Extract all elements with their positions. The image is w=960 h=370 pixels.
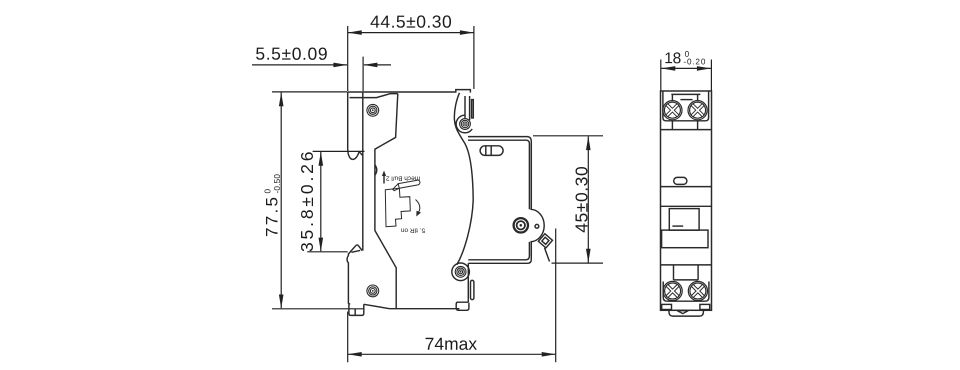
front view: top terminal bridge (671, 93, 700, 95)
front view: lower block top line (661, 264, 712, 266)
svg-text:18: 18 (664, 50, 681, 67)
instruction: clip shape (385, 188, 410, 226)
side view: front big arc (454, 93, 473, 265)
front view: face line (661, 186, 712, 188)
svg-text:77.5: 77.5 (263, 197, 282, 237)
side view: right lower edge to bottom (467, 263, 469, 302)
front view: toggle handle (669, 209, 699, 231)
front view: top ticks lower (671, 121, 673, 130)
side view: top ledge (468, 137, 531, 210)
side view: screw top-right with boss (456, 115, 472, 133)
side view: tip tail line (545, 248, 550, 262)
side view: top right flag (472, 100, 474, 118)
instruction: up arrow (382, 171, 386, 184)
front view: rocker plate (662, 230, 708, 248)
front view: screw top-right (688, 101, 707, 120)
side view: toggle hub arc (530, 209, 544, 241)
front view: terminal bottom line (661, 129, 712, 131)
5.5 arrows (333, 63, 347, 68)
74 arrows (348, 352, 362, 357)
side view: left edge lower (347, 254, 348, 304)
front view: toggle dash (672, 225, 683, 227)
instruction: rotate arrow (416, 200, 422, 217)
front view: screw bottom-right (688, 281, 707, 300)
44.5 arrows (348, 30, 362, 35)
dim 35.8 lines (313, 150, 365, 152)
front view: screw bottom-left (663, 281, 682, 300)
77.5 arrows (279, 92, 284, 106)
svg-text:-0.50: -0.50 (273, 174, 282, 194)
front view: lower cage ticks (673, 265, 675, 280)
18 arrows (661, 66, 675, 71)
side view: bottom right tab (456, 302, 469, 310)
dim 18 lines (660, 60, 662, 91)
45 arrows (586, 136, 591, 150)
side view: inner channel line (362, 92, 364, 251)
dimension texts (255, 12, 705, 354)
svg-text:74max: 74max (425, 334, 478, 354)
side view: panel nub (375, 165, 377, 175)
arrowheads (279, 30, 711, 356)
side view: inner panel outline (375, 94, 398, 309)
front view: top terminal ticks upper (671, 94, 673, 101)
front view: lower cage line (674, 279, 699, 281)
front view: right foot (700, 304, 710, 309)
front view: screw top-left (663, 101, 682, 120)
side view: top right verticals (464, 96, 466, 118)
instruction: screwdriver (393, 180, 420, 191)
svg-text:-0.20: -0.20 (683, 57, 705, 66)
front view: top tangent line (680, 99, 692, 101)
side view: lower tooth (348, 245, 362, 254)
side view: bottom ledge inner (468, 242, 529, 260)
front view: top recess outline (663, 91, 709, 121)
front view: outer rect (661, 91, 712, 310)
front view: lower recess outline (663, 282, 709, 302)
front view: left foot (662, 304, 672, 309)
dim 77.5 lines (272, 91, 347, 93)
dim 5.5 lines (362, 57, 364, 91)
svg-text:45±0.30: 45±0.30 (572, 166, 592, 233)
dim 74 lines (347, 312, 349, 363)
side view: DIN hook (349, 304, 364, 316)
svg-text:35.8±0.26: 35.8±0.26 (297, 152, 317, 253)
svg-text:0: 0 (263, 189, 272, 194)
side view: toggle pivot (514, 218, 528, 232)
side view: toggle tip diamond (538, 234, 552, 248)
svg-text:44.5±0.30: 44.5±0.30 (370, 12, 452, 32)
side view: face below hub (468, 242, 531, 263)
side view: right lower latch (471, 280, 474, 299)
svg-text:5. tlR on: 5. tlR on (401, 227, 426, 234)
front view: bottom tab (669, 310, 703, 316)
front view: tab notch triangle (677, 311, 688, 314)
dim 45 lines (533, 135, 603, 137)
side view: hook inner line (354, 309, 356, 315)
side view: top edge (348, 90, 471, 93)
front view: toggle top line (661, 205, 712, 207)
label 77.5 0/-0.50 (263, 174, 282, 237)
svg-text:5.5±0.09: 5.5±0.09 (255, 44, 327, 64)
35.8 arrows (319, 152, 324, 166)
dim 44.5 lines (347, 26, 349, 91)
side view: inner top line (350, 94, 398, 98)
side view: oval indicator (480, 146, 503, 156)
side view: detent dot (535, 224, 539, 228)
side view: bottom edge (364, 304, 460, 308)
side view: screw bottom-left (367, 285, 379, 297)
front view: oval slot (674, 177, 687, 184)
side view: screw top-left (367, 104, 379, 116)
side view: screw bottom-right with boss (452, 263, 470, 281)
side view: left edge upper (348, 92, 363, 159)
